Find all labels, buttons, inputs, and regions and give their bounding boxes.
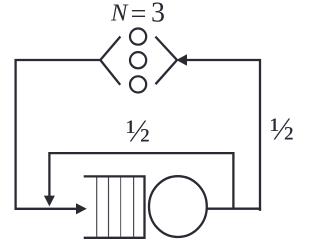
queue slot line 2 [108, 178, 110, 237]
arrowhead into queue [76, 203, 87, 214]
token circle 1 [130, 28, 146, 44]
delay station left chevron [100, 37, 120, 85]
queue slot line 1 [96, 178, 98, 237]
delay station right chevron [155, 37, 177, 85]
wire: right side up, back to delay [187, 60, 260, 211]
arrowhead down onto queue input line [44, 196, 55, 207]
server circle [149, 176, 207, 237]
queue slot line 4 [133, 178, 135, 237]
wire: delay output, left side down, into queue [16, 60, 101, 209]
svg-text:½: ½ [270, 111, 294, 147]
label N = 3 [110, 0, 165, 30]
token circle 3 [130, 76, 146, 92]
arrowhead into delay station [176, 54, 187, 65]
queue slot line 3 [120, 178, 122, 237]
svg-text:½: ½ [126, 113, 150, 149]
queue box (open left) [84, 176, 145, 237]
wire: feedback loop from output line back to queue input [49, 153, 233, 209]
token circle 2 [130, 52, 146, 68]
svg-text:=: = [131, 0, 147, 30]
svg-text:N: N [110, 0, 129, 27]
svg-text:3: 3 [151, 0, 165, 29]
wire: server output to right side [206, 208, 261, 210]
